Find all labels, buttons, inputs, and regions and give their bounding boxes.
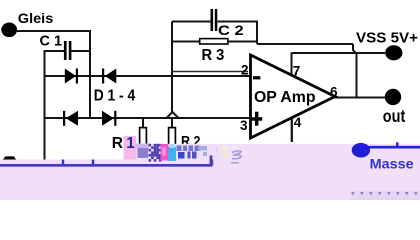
svg-text:out: out xyxy=(383,106,406,126)
svg-text:C 1: C 1 xyxy=(40,33,63,50)
svg-text:3: 3 xyxy=(240,118,248,133)
svg-text:7: 7 xyxy=(293,64,301,79)
svg-text:D 1 - 4: D 1 - 4 xyxy=(94,88,136,105)
svg-text:1: 1 xyxy=(126,135,135,152)
svg-text:R: R xyxy=(112,135,123,152)
svg-text:6: 6 xyxy=(330,84,338,99)
svg-text:Gleis: Gleis xyxy=(18,10,54,26)
svg-text:OP Amp: OP Amp xyxy=(254,89,316,106)
svg-text:2: 2 xyxy=(241,63,249,78)
svg-text:Masse: Masse xyxy=(370,156,414,171)
svg-text:VSS 5V+: VSS 5V+ xyxy=(356,30,418,46)
svg-text:C 2: C 2 xyxy=(218,22,244,38)
svg-text:4: 4 xyxy=(294,115,302,130)
svg-text:R 3: R 3 xyxy=(202,47,225,64)
